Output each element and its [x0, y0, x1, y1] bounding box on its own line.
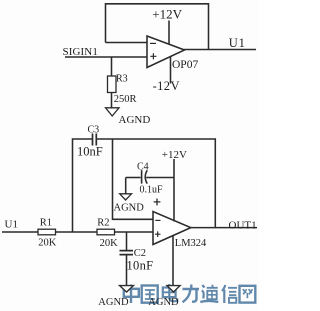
svg-text:20K: 20K: [38, 238, 57, 249]
svg-text:R1: R1: [40, 217, 52, 228]
svg-text:AGND: AGND: [114, 203, 145, 214]
svg-text:R3: R3: [116, 73, 128, 84]
svg-text:R2: R2: [97, 217, 109, 228]
svg-text:LM324: LM324: [175, 238, 207, 249]
svg-text:AGND: AGND: [98, 297, 129, 308]
svg-text:U1: U1: [5, 218, 18, 230]
svg-text:OUT1: OUT1: [229, 219, 257, 231]
svg-text:OP07: OP07: [172, 59, 198, 71]
svg-text:C2: C2: [134, 248, 146, 259]
svg-text:AGND: AGND: [148, 297, 179, 308]
svg-text:10nF: 10nF: [127, 259, 154, 273]
svg-text:C4: C4: [137, 162, 149, 173]
svg-text:C3: C3: [88, 125, 100, 136]
svg-text:20K: 20K: [100, 238, 119, 249]
svg-text:-12V: -12V: [153, 79, 180, 93]
svg-text:10nF: 10nF: [77, 144, 103, 158]
svg-text:U1: U1: [229, 36, 246, 50]
svg-text:+12V: +12V: [152, 6, 182, 21]
svg-text:AGND: AGND: [119, 114, 151, 126]
svg-text:+12V: +12V: [162, 149, 187, 161]
svg-text:250R: 250R: [114, 94, 137, 105]
svg-text:SIGIN1: SIGIN1: [63, 46, 98, 58]
svg-text:0.1uF: 0.1uF: [140, 185, 164, 196]
